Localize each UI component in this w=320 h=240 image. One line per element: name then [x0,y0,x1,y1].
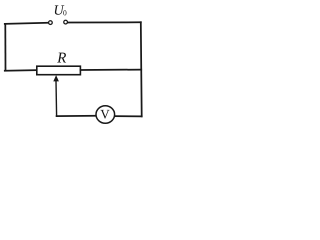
wire top-left horizontal [5,23,48,24]
label U0 [55,5,65,14]
wire resistor right to right vertical [81,69,142,71]
wire bottom right (voltmeter to right vertical) [114,115,141,117]
wire bottom left (wiper to voltmeter) [57,115,97,117]
terminal (left, of U0 source) [49,21,53,25]
resistor R (potentiometer body) [37,66,81,75]
wire right vertical [140,22,143,116]
wiper arrowhead [53,75,59,81]
wiper stem of potentiometer [55,81,58,116]
voltmeter circle [96,106,115,123]
wire top-right horizontal [68,21,141,23]
wire left vertical [4,24,6,71]
wire left to resistor [5,69,37,72]
label V of voltmeter [100,110,109,119]
label R [57,53,66,63]
terminal (right, of U0 source) [64,20,68,24]
